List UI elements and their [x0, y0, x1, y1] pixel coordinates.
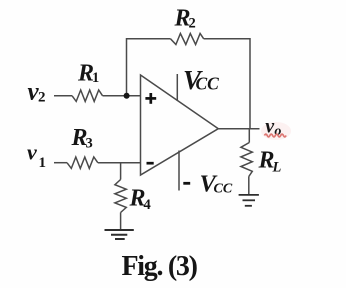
svg-text:2: 2 — [189, 16, 196, 32]
pink halo around vo — [261, 122, 291, 140]
op-amp + input symbol — [145, 93, 156, 104]
wire R4 to ground — [120, 213, 122, 230]
svg-text:CC: CC — [214, 182, 233, 197]
label R2 — [174, 6, 196, 32]
red squiggle under vo — [265, 134, 287, 137]
svg-text:Fig. (3): Fig. (3) — [122, 251, 198, 282]
svg-text:1: 1 — [39, 155, 47, 171]
wire node B down to R4 — [120, 163, 122, 180]
ground under RL — [239, 195, 259, 206]
label R3 — [71, 125, 93, 152]
wire -VCC supply — [178, 151, 180, 191]
resistor R3 — [67, 157, 98, 168]
wire v2 lead — [54, 95, 72, 97]
label VCC — [183, 65, 219, 95]
wire VCC supply — [176, 74, 178, 101]
junction node A dot — [124, 93, 130, 99]
label vo output — [265, 115, 281, 139]
svg-text:3: 3 — [86, 136, 93, 152]
svg-text:4: 4 — [144, 197, 151, 213]
svg-text:L: L — [272, 159, 282, 175]
label v2 — [28, 78, 46, 105]
wire RL to ground — [248, 177, 250, 195]
wire R3 to op-amp - input — [98, 162, 141, 164]
label v1 — [27, 140, 46, 172]
label -VCC minus dash — [183, 182, 190, 185]
resistor RL — [241, 143, 252, 177]
label R4 — [129, 185, 151, 213]
label RL — [258, 147, 282, 175]
wire top-right to output node — [204, 39, 250, 129]
op-amp - input symbol — [147, 162, 154, 165]
resistor R1 — [72, 90, 103, 101]
svg-text:CC: CC — [196, 74, 220, 94]
label -VCC — [200, 170, 233, 197]
wire output — [218, 128, 259, 130]
svg-text:v: v — [27, 140, 37, 165]
wire v1 lead — [54, 162, 67, 164]
op-amp U1 — [141, 75, 219, 175]
resistor R2 — [171, 34, 204, 45]
wire top-left vertical (node A to top loop) — [127, 39, 171, 96]
wire R1 to op-amp + input — [103, 95, 141, 97]
wire output node down to RL — [248, 129, 250, 143]
resistor R4 — [115, 180, 126, 213]
ground under R4 — [105, 230, 134, 239]
svg-text:1: 1 — [92, 70, 99, 86]
svg-text:2: 2 — [38, 90, 46, 106]
label R1 — [77, 60, 99, 86]
